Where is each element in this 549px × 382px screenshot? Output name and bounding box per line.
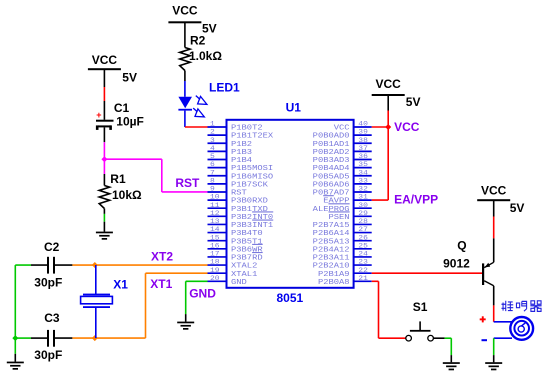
svg-text:P0B1AD1: P0B1AD1 bbox=[313, 141, 350, 149]
svg-text:31: 31 bbox=[358, 194, 368, 201]
svg-text:VCC: VCC bbox=[334, 124, 350, 132]
svg-text:RST: RST bbox=[175, 176, 200, 190]
svg-text:P1B7SCK: P1B7SCK bbox=[231, 181, 268, 189]
svg-text:8: 8 bbox=[210, 178, 215, 185]
svg-text:P2B6A14: P2B6A14 bbox=[313, 230, 350, 238]
svg-text:6: 6 bbox=[210, 162, 215, 169]
svg-text:P2B4A12: P2B4A12 bbox=[313, 246, 350, 254]
svg-text:20: 20 bbox=[210, 275, 220, 282]
svg-text:17: 17 bbox=[210, 251, 220, 258]
svg-text:C2: C2 bbox=[44, 240, 60, 254]
svg-text:10: 10 bbox=[210, 194, 220, 201]
svg-text:P2B3A11: P2B3A11 bbox=[313, 254, 350, 262]
svg-text:29: 29 bbox=[358, 211, 368, 218]
svg-text:C1: C1 bbox=[114, 101, 130, 115]
svg-text:P1B1T2EX: P1B1T2EX bbox=[231, 132, 273, 140]
svg-text:VCC: VCC bbox=[376, 77, 402, 91]
svg-text:2: 2 bbox=[210, 129, 215, 136]
svg-text:P0B3AD3: P0B3AD3 bbox=[313, 157, 350, 165]
svg-text:23: 23 bbox=[358, 259, 368, 266]
svg-text:GND: GND bbox=[189, 287, 216, 301]
svg-text:VCC: VCC bbox=[394, 120, 420, 134]
svg-text:21: 21 bbox=[358, 275, 368, 282]
svg-text:P1B2: P1B2 bbox=[231, 141, 252, 149]
svg-text:16: 16 bbox=[210, 243, 220, 250]
svg-text:VCC: VCC bbox=[172, 4, 198, 18]
svg-text:P1B6MISO: P1B6MISO bbox=[231, 173, 273, 181]
svg-text:P1B3: P1B3 bbox=[231, 149, 252, 157]
svg-text:15: 15 bbox=[210, 235, 220, 242]
svg-text:P0B5AD5: P0B5AD5 bbox=[313, 173, 350, 181]
svg-text:VCC: VCC bbox=[92, 53, 118, 67]
svg-text:24: 24 bbox=[358, 251, 368, 258]
svg-text:P0B0AD0: P0B0AD0 bbox=[313, 132, 350, 140]
svg-text:10kΩ: 10kΩ bbox=[112, 188, 142, 202]
svg-text:LED1: LED1 bbox=[209, 81, 240, 95]
svg-text:34: 34 bbox=[358, 170, 368, 177]
svg-text:18: 18 bbox=[210, 259, 220, 266]
svg-text:P2B7A15: P2B7A15 bbox=[313, 222, 350, 230]
svg-text:R1: R1 bbox=[110, 172, 126, 186]
svg-text:10µF: 10µF bbox=[116, 114, 144, 128]
svg-text:S1: S1 bbox=[413, 300, 428, 314]
svg-text:25: 25 bbox=[358, 243, 368, 250]
svg-text:+: + bbox=[96, 110, 101, 120]
svg-text:Q: Q bbox=[457, 239, 466, 253]
svg-text:3: 3 bbox=[210, 137, 215, 144]
svg-text:8051: 8051 bbox=[277, 291, 304, 305]
svg-text:XTAL2: XTAL2 bbox=[231, 262, 258, 270]
svg-text:P0B4AD4: P0B4AD4 bbox=[313, 165, 350, 173]
svg-text:1: 1 bbox=[210, 121, 215, 128]
svg-text:26: 26 bbox=[358, 235, 368, 242]
svg-text:U1: U1 bbox=[286, 101, 302, 115]
svg-text:5V: 5V bbox=[406, 95, 421, 109]
svg-text:13: 13 bbox=[210, 219, 220, 226]
svg-text:27: 27 bbox=[358, 227, 368, 234]
svg-text:39: 39 bbox=[358, 129, 368, 136]
svg-text:5V: 5V bbox=[510, 201, 525, 215]
svg-text:XT2: XT2 bbox=[151, 250, 173, 264]
svg-text:11: 11 bbox=[210, 202, 220, 209]
svg-text:37: 37 bbox=[358, 146, 368, 153]
svg-text:VCC: VCC bbox=[481, 184, 507, 198]
svg-text:28: 28 bbox=[358, 219, 368, 226]
svg-text:38: 38 bbox=[358, 137, 368, 144]
svg-text:P3B0RXD: P3B0RXD bbox=[231, 197, 268, 205]
svg-text:XT1: XT1 bbox=[150, 277, 172, 291]
svg-text:C3: C3 bbox=[44, 311, 60, 325]
svg-text:4: 4 bbox=[210, 146, 215, 153]
svg-text:1.0kΩ: 1.0kΩ bbox=[189, 49, 222, 63]
svg-text:P0B2AD2: P0B2AD2 bbox=[313, 149, 350, 157]
svg-text:40: 40 bbox=[358, 121, 368, 128]
svg-text:32: 32 bbox=[358, 186, 368, 193]
svg-text:5: 5 bbox=[210, 154, 215, 161]
svg-text:P1B4: P1B4 bbox=[231, 157, 252, 165]
svg-text:30: 30 bbox=[358, 202, 368, 209]
svg-text:14: 14 bbox=[210, 227, 220, 234]
svg-text:19: 19 bbox=[210, 267, 220, 274]
svg-text:P2B5A13: P2B5A13 bbox=[313, 238, 350, 246]
svg-text:30pF: 30pF bbox=[34, 275, 62, 289]
svg-text:9: 9 bbox=[210, 186, 215, 193]
svg-text:22: 22 bbox=[358, 267, 368, 274]
svg-text:12: 12 bbox=[210, 211, 220, 218]
svg-text:XTAL1: XTAL1 bbox=[231, 270, 258, 278]
svg-text:P2B2A10: P2B2A10 bbox=[313, 262, 350, 270]
svg-text:7: 7 bbox=[210, 170, 215, 177]
svg-text:30pF: 30pF bbox=[34, 348, 62, 362]
svg-text:P3B3INT1: P3B3INT1 bbox=[231, 222, 273, 230]
svg-text:9012: 9012 bbox=[443, 256, 470, 270]
svg-text:P2B1A9: P2B1A9 bbox=[318, 270, 350, 278]
svg-text:P2B0A8: P2B0A8 bbox=[318, 279, 350, 287]
svg-text:P3B7RD: P3B7RD bbox=[231, 254, 263, 262]
svg-text:RST: RST bbox=[231, 189, 247, 197]
svg-text:P0B6AD6: P0B6AD6 bbox=[313, 181, 350, 189]
svg-text:P3B4T0: P3B4T0 bbox=[231, 230, 263, 238]
svg-text:35: 35 bbox=[358, 162, 368, 169]
svg-text:36: 36 bbox=[358, 154, 368, 161]
svg-text:PSEN: PSEN bbox=[329, 214, 350, 222]
svg-text:33: 33 bbox=[358, 178, 368, 185]
svg-text:P1B0T2: P1B0T2 bbox=[231, 124, 263, 132]
svg-text:P1B5MOSI: P1B5MOSI bbox=[231, 165, 273, 173]
svg-text:X1: X1 bbox=[113, 278, 128, 292]
svg-text:R2: R2 bbox=[190, 34, 206, 48]
svg-text:EA/VPP: EA/VPP bbox=[394, 193, 438, 207]
svg-text:GND: GND bbox=[231, 279, 247, 287]
svg-text:5V: 5V bbox=[122, 71, 137, 85]
